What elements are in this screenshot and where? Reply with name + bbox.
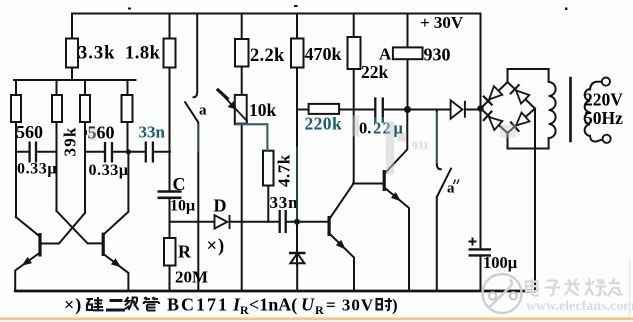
- svg-text:D: D: [214, 196, 227, 216]
- svg-text:C: C: [173, 174, 186, 194]
- diode D horizontal: [215, 215, 230, 229]
- terminal 220V bottom: [603, 135, 611, 143]
- wire primary top lead: [590, 82, 602, 90]
- svg-text:33n: 33n: [270, 193, 299, 212]
- wire bottom ground rail: [15, 290, 535, 293]
- watermark glyph zi: [545, 281, 561, 296]
- svg-text:930: 930: [424, 45, 451, 65]
- svg-text:A: A: [379, 45, 392, 64]
- wire 0.22u row: [354, 109, 408, 111]
- svg-text:33n: 33n: [139, 123, 166, 142]
- wire R4 branch leads: [127, 80, 129, 152]
- watermark logo circle: [483, 274, 522, 313]
- wire coupling-cap bus y152: [16, 151, 170, 153]
- svg-text:+ 30V: + 30V: [420, 13, 464, 32]
- capacitor 33n right: [280, 210, 286, 233]
- ghost gray near 560: [89, 128, 97, 141]
- resistor 4.7k: [263, 151, 274, 186]
- switch a2 fixed contact: [437, 110, 441, 170]
- switch a fixed contact: [194, 14, 198, 98]
- svg-text:3.3k: 3.3k: [78, 44, 115, 64]
- svg-text:BC171: BC171: [167, 295, 229, 315]
- wire right vertical to 100u: [480, 14, 482, 291]
- wire Q2 collector diagonal: [105, 152, 129, 234]
- svg-text:0.33μ: 0.33μ: [89, 162, 129, 179]
- watermark logo dot right: [510, 292, 517, 299]
- wire Q2 base cross-coupling: [57, 211, 102, 244]
- svg-text:R: R: [240, 303, 249, 317]
- wire 2.2k / pot branch: [241, 14, 243, 291]
- wire Q1 collector diagonal: [16, 217, 39, 236]
- svg-text:50Hz: 50Hz: [584, 108, 623, 128]
- switch a blade: [185, 102, 198, 290]
- wire multivibrator top bus: [14, 79, 136, 81]
- transformer core: [569, 78, 572, 141]
- wire 220k leads: [297, 109, 354, 111]
- svg-text:<1nA(: <1nA(: [249, 295, 297, 316]
- wire Q3 collector: [330, 184, 353, 218]
- capacitor 0.22u: [375, 97, 383, 122]
- speck top left: [128, 8, 131, 10]
- svg-text:R: R: [315, 303, 324, 317]
- wire zener leads: [296, 222, 298, 291]
- ghost gray near 0.22u: [386, 122, 395, 175]
- transistor Q3 base bar: [328, 216, 331, 236]
- transformer secondary winding: [549, 69, 556, 149]
- tick before 560: [85, 130, 87, 135]
- svg-text:39k: 39k: [61, 126, 80, 156]
- svg-text:220k: 220k: [305, 114, 343, 134]
- potentiometer 10k body: [235, 95, 247, 124]
- wire relay A branch: [407, 14, 409, 110]
- transformer primary winding: [585, 89, 590, 136]
- wire Q3 emitter: [330, 235, 354, 291]
- resistor R4: [122, 95, 133, 122]
- transistor Q1 emitter arrow: [22, 257, 32, 266]
- watermark glyph you: [608, 279, 622, 297]
- bridge diode upper-left: [483, 86, 503, 106]
- svg-text:a: a: [199, 103, 207, 119]
- transistor Q2 emitter arrow: [111, 258, 121, 267]
- speck top right: [565, 8, 568, 11]
- wire 22k branch: [353, 14, 355, 184]
- caption glyph guan: [144, 297, 160, 310]
- svg-text:560: 560: [16, 122, 43, 142]
- svg-text:0.: 0.: [359, 119, 371, 138]
- junction node bridge positive: [477, 105, 483, 111]
- wire R3 branch leads: [84, 80, 86, 213]
- watermark logo dot left: [489, 292, 496, 299]
- transistor Q2 base bar: [102, 233, 105, 256]
- watermark glyph fa: [565, 279, 580, 296]
- junction node R4/Q2: [126, 149, 131, 154]
- svg-text:931: 931: [412, 140, 429, 152]
- svg-text:www.elecfans.com: www.elecfans.com: [526, 299, 633, 314]
- resistor 560 second: [80, 95, 90, 122]
- plus sign of 100u: [469, 238, 477, 246]
- ghost gray near bridge bottom: [500, 125, 516, 138]
- wire 3.3k branch leads: [71, 14, 73, 81]
- capacitor 0.33u second: [105, 142, 112, 163]
- svg-text:22k: 22k: [361, 62, 389, 82]
- svg-text:×): ×): [64, 295, 82, 316]
- cyan highlight pot tap wire: [235, 124, 267, 150]
- wire R2 branch leads: [56, 80, 58, 211]
- capacitor 100u electrolytic: [469, 249, 492, 255]
- resistor 22k: [348, 37, 361, 69]
- caption glyph ji: [125, 297, 139, 310]
- wire 33n to node B: [287, 221, 328, 223]
- svg-text:): ): [392, 296, 398, 315]
- orange footer line: [0, 317, 633, 320]
- caption glyph er: [106, 301, 125, 311]
- watermark glyph shao: [585, 279, 606, 296]
- bridge diamond edges: [481, 82, 536, 133]
- junction node zener/33n: [294, 219, 300, 225]
- svg-text:1.8k: 1.8k: [125, 44, 161, 64]
- potentiometer arrow: [217, 89, 248, 122]
- resistor 220k: [309, 104, 340, 114]
- wire 470k branch: [296, 14, 298, 222]
- svg-text:100μ: 100μ: [483, 253, 518, 272]
- relay coil A 930: [393, 47, 423, 59]
- speck top middle: [294, 5, 298, 7]
- bridge diode upper-right: [510, 84, 530, 104]
- wire diode D row: [170, 221, 279, 223]
- transistor Q4 emitter arrow: [391, 192, 401, 201]
- wire pot tap to 4.7k: [235, 124, 267, 150]
- resistor 2.2k: [235, 39, 249, 67]
- svg-text:2.2k: 2.2k: [250, 46, 285, 66]
- diode zener to ground: [289, 250, 306, 266]
- capacitor 0.33u first: [30, 142, 36, 163]
- transistor Q4 base bar: [383, 170, 386, 191]
- resistor 39k: [52, 95, 62, 122]
- svg-text:10μ: 10μ: [170, 198, 195, 215]
- wire 4.7k bottom lead: [267, 186, 269, 222]
- cyan mark near 0.22u: [375, 117, 383, 123]
- capacitor 33n left: [146, 142, 153, 163]
- wire bridge AC top: [508, 69, 549, 82]
- svg-text:R: R: [178, 242, 192, 262]
- svg-text:220V: 220V: [584, 90, 623, 110]
- wire bridge AC bottom: [508, 133, 549, 149]
- terminal 220V top: [602, 78, 610, 86]
- transistor Q1 base bar: [38, 233, 41, 257]
- cyan highlight 470k lower: [296, 147, 298, 219]
- junction node relay output: [404, 106, 411, 113]
- svg-text:4.7k: 4.7k: [275, 154, 294, 187]
- diode D2 series: [451, 100, 465, 118]
- wire 1.8k / C / R branch: [169, 14, 171, 291]
- wire Q4 collector: [386, 110, 408, 173]
- resistor 560 left: [11, 95, 21, 122]
- wire Q3-Q4 node: [353, 183, 383, 185]
- wire top +30V rail: [72, 13, 481, 15]
- caption glyph shi: [377, 298, 393, 310]
- cyan highlight a2 branch: [436, 112, 438, 163]
- svg-text:×): ×): [207, 237, 226, 257]
- wire relay to rectifier row: [408, 109, 481, 111]
- wire Q2 emitter to ground: [105, 255, 129, 291]
- bridge diode lower-left: [483, 111, 503, 131]
- caption glyph gui: [87, 297, 104, 311]
- switch a2 blade: [437, 169, 451, 291]
- wire primary bottom lead: [590, 136, 602, 142]
- wire R1 branch leads: [15, 80, 17, 217]
- resistor 1.8k: [164, 39, 176, 68]
- svg-text:470k: 470k: [305, 44, 342, 64]
- bridge diode lower-right: [510, 112, 530, 132]
- svg-text:U: U: [301, 295, 315, 315]
- wire Q1 emitter to ground: [15, 254, 39, 291]
- svg-text:0.33μ: 0.33μ: [17, 161, 57, 178]
- resistor R 20M: [164, 238, 176, 266]
- resistor 470k: [291, 39, 304, 68]
- transistor Q3 emitter arrow: [336, 240, 346, 250]
- cyan highlight switch a lower: [197, 124, 199, 152]
- svg-text:= 30V: = 30V: [326, 296, 374, 315]
- capacitor C 10u plates: [158, 192, 182, 198]
- watermark glyph dian: [526, 279, 539, 296]
- svg-text:10k: 10k: [249, 100, 277, 120]
- watermark right edge ghost: [629, 258, 632, 318]
- resistor 3.3k: [66, 39, 78, 68]
- wire Q1 base cross-coupling: [41, 213, 85, 244]
- svg-text:20M: 20M: [175, 268, 208, 287]
- wire Q4 emitter: [386, 189, 409, 291]
- wire bridge negative drop: [534, 109, 536, 291]
